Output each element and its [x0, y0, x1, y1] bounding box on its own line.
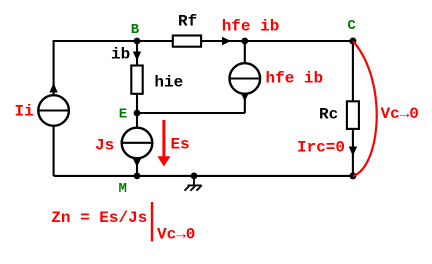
wire top from Rf to node C [201, 40, 353, 42]
wire hie to node E [136, 94, 138, 113]
arrow Irc down [349, 147, 357, 157]
wire E to dependent source branch [137, 112, 245, 114]
svg-text:hfe ib: hfe ib [222, 18, 280, 36]
node junction above dependent source [241, 38, 248, 45]
ground [185, 176, 202, 191]
svg-text:Js: Js [95, 137, 114, 155]
resistor hie [131, 66, 142, 94]
svg-text:Rf: Rf [178, 12, 197, 30]
wire bottom from left corner to node M [54, 175, 137, 177]
wire junction down to dependent source [244, 41, 246, 63]
dependent current source hfe ib [230, 63, 261, 94]
formula evaluation bar [151, 202, 153, 242]
wire left vertical lower (Ii to bottom wire) [53, 126, 55, 176]
svg-text:Rc: Rc [319, 106, 338, 124]
wire B down to hie [136, 41, 138, 66]
resistor Rf [173, 36, 201, 47]
node B [134, 38, 141, 45]
current source Ii [38, 95, 69, 126]
svg-text:Vc→0: Vc→0 [381, 105, 419, 123]
svg-text:Zn = Es/Js: Zn = Es/Js [51, 209, 147, 227]
resistor Rc [347, 101, 359, 129]
svg-text:Ii: Ii [15, 103, 34, 121]
node C [349, 38, 356, 45]
wire dependent source down to E wire [244, 94, 246, 113]
wire top from left corner to node B [54, 40, 137, 42]
svg-text:M: M [119, 181, 127, 197]
node M [134, 173, 141, 180]
svg-text:C: C [347, 18, 356, 34]
red arrow Es [162, 120, 165, 158]
wire top from node B to Rf [137, 40, 173, 42]
wire bottom from M to ground junction [137, 175, 194, 177]
arrow Js down [133, 159, 141, 168]
wire C down to Rc [352, 41, 354, 101]
red arc Vc [353, 41, 377, 176]
svg-text:hfe ib: hfe ib [266, 70, 324, 88]
wire Rc down to bottom node [352, 129, 354, 176]
svg-text:Es: Es [171, 136, 190, 154]
arrow dependent source down [241, 93, 249, 102]
ground junction dot [191, 173, 198, 180]
source Js [136, 113, 138, 128]
svg-text:Vc→0: Vc→0 [157, 226, 195, 244]
svg-text:E: E [119, 106, 127, 122]
svg-text:B: B [131, 22, 140, 38]
wire left vertical upper (corner to Ii source) [53, 40, 55, 95]
wire Js to node M [136, 158, 138, 176]
arrow ib direction on top wire [222, 37, 231, 45]
svg-text:Irc=0: Irc=0 [297, 139, 345, 157]
svg-text:ib: ib [111, 46, 130, 64]
node bottom right [349, 172, 356, 179]
arrow ib down [133, 52, 141, 61]
wire bottom from ground junction to right node [194, 175, 353, 177]
node E [134, 110, 141, 117]
svg-text:hie: hie [154, 73, 183, 91]
arrow Ii direction up [49, 83, 57, 93]
